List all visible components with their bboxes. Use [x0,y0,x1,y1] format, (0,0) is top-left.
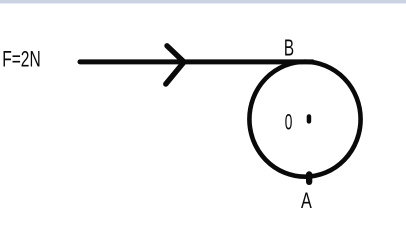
svg-text:F=2N: F=2N [2,47,41,72]
svg-text:0: 0 [285,110,293,135]
svg-text:A: A [301,188,312,213]
svg-text:B: B [284,35,294,61]
